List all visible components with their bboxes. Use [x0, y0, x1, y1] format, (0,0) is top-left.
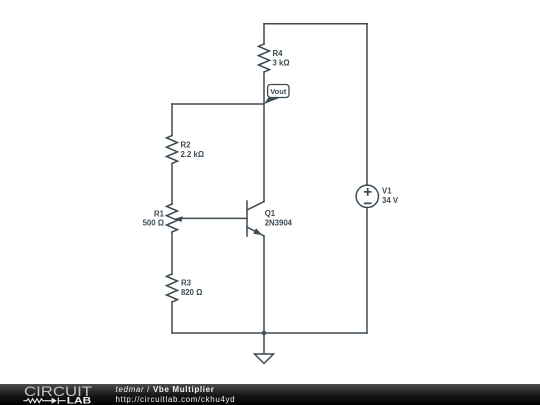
svg-text:820 Ω: 820 Ω [181, 288, 202, 297]
transistor Q1 emitter diagonal [247, 227, 264, 236]
wire R2 to R1 [171, 164, 173, 205]
transistor Q1 collector diagonal [247, 202, 264, 211]
svg-text:2N3904: 2N3904 [265, 218, 293, 227]
svg-text:34 V: 34 V [382, 196, 399, 205]
svg-text:R3: R3 [181, 279, 192, 288]
V1 plus sign [364, 188, 372, 196]
transistor Q1 emitter arrow [253, 228, 262, 235]
CircuitLab logo [0, 384, 110, 405]
wire R3 bottom lead [171, 302, 173, 333]
svg-text:Q1: Q1 [265, 209, 276, 218]
svg-text:2.2 kΩ: 2.2 kΩ [181, 150, 205, 159]
ground stem [263, 333, 265, 354]
resistor R2 [167, 136, 178, 164]
wire horizontal Vout node to R2 branch [172, 103, 264, 105]
V1 minus sign [364, 203, 372, 205]
wire R4 top lead [263, 24, 265, 44]
node label Vout flag [264, 85, 289, 105]
voltage source V1 circle [356, 185, 378, 207]
potentiometer R1 [167, 204, 178, 232]
svg-text:R4: R4 [273, 49, 284, 58]
svg-text:3 kΩ: 3 kΩ [273, 58, 290, 67]
ground triangle [255, 354, 274, 364]
transistor Q1 base bar [246, 201, 248, 236]
wire R4 bottom lead to Vout node [263, 72, 265, 104]
wire V1 bottom lead [366, 208, 368, 334]
label R3 value [181, 279, 202, 297]
wire Q1 emitter to ground node [263, 236, 265, 333]
svg-text:500 Ω: 500 Ω [143, 219, 164, 228]
wire R2 top lead [171, 104, 173, 136]
wire R1 to R3 [171, 232, 173, 274]
wire R1 wiper to Q1 base [181, 217, 247, 219]
wire V1 top lead [366, 24, 368, 186]
svg-text:R1: R1 [154, 209, 165, 218]
footer bar [0, 384, 540, 405]
wire top (R4 top to V1 top) [264, 23, 367, 25]
footer title text [116, 385, 236, 404]
svg-text:R2: R2 [181, 141, 192, 150]
label Q1 value [265, 209, 293, 227]
junction node dot at ground [262, 331, 266, 335]
label R1 value [143, 209, 165, 227]
svg-text:LAB: LAB [67, 396, 92, 405]
resistor R4 [259, 44, 270, 72]
label R4 value [273, 49, 290, 67]
label R2 value [181, 141, 205, 159]
svg-text:Vout: Vout [270, 87, 287, 96]
label V1 value [382, 187, 399, 205]
wire Vout node to Q1 collector [263, 104, 265, 202]
wire bottom (R3 to V1 bottom) [172, 332, 367, 334]
potentiometer R1 wiper arrow [174, 216, 183, 222]
svg-text:V1: V1 [382, 187, 392, 196]
resistor R3 [167, 274, 178, 302]
